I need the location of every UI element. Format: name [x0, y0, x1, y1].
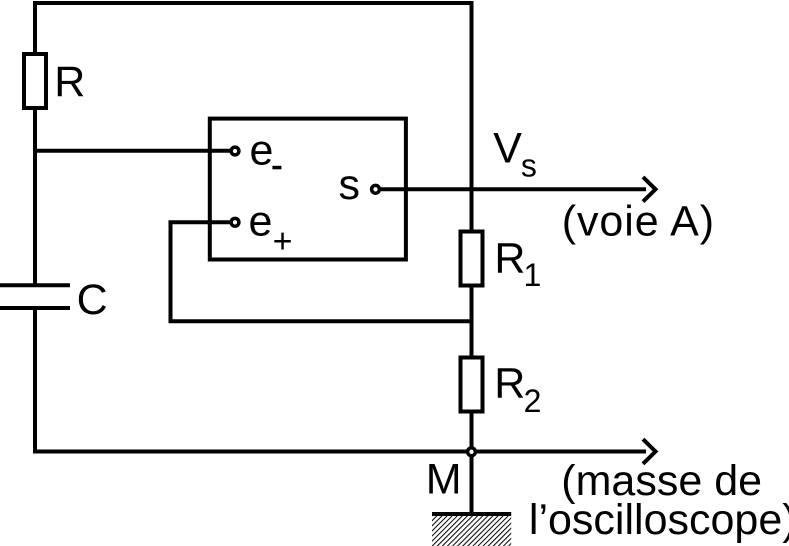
svg-text:1: 1	[524, 257, 542, 293]
svg-text:M: M	[426, 455, 462, 503]
svg-text:R: R	[494, 234, 525, 282]
svg-text:R: R	[494, 360, 525, 408]
svg-text:V: V	[493, 125, 522, 173]
svg-text:l’oscilloscope): l’oscilloscope)	[529, 496, 789, 544]
svg-text:2: 2	[524, 383, 542, 419]
svg-text:(voie A): (voie A)	[562, 198, 715, 246]
svg-text:s: s	[521, 148, 537, 184]
svg-text:C: C	[77, 276, 108, 324]
svg-text:R: R	[54, 58, 85, 106]
svg-text:+: +	[273, 223, 293, 261]
svg-text:e: e	[249, 198, 273, 246]
svg-text:s: s	[339, 161, 361, 209]
svg-text:e: e	[250, 127, 274, 175]
